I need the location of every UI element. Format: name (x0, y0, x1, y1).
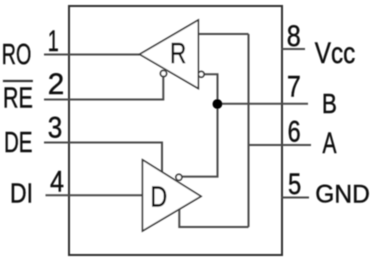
svg-text:B: B (322, 88, 337, 119)
receiver inverting input bubble (198, 71, 204, 77)
svg-text:3: 3 (48, 112, 63, 145)
svg-text:8: 8 (287, 20, 301, 53)
IC package body U1 (69, 6, 282, 255)
svg-text:D: D (150, 182, 167, 214)
svg-text:R: R (170, 38, 186, 70)
wire A net vertical (248, 34, 250, 227)
wire pin4 DI stub to driver input (46, 194, 143, 196)
svg-text:A: A (323, 127, 337, 160)
svg-text:Vcc: Vcc (315, 37, 356, 70)
svg-text:2: 2 (48, 68, 65, 101)
wire pin1 RO stub to receiver output (44, 54, 140, 56)
wire receiver upper input from A net (198, 33, 248, 35)
svg-text:4: 4 (50, 165, 64, 198)
wire pin6 A stub (249, 144, 312, 146)
svg-text:RO: RO (2, 39, 32, 71)
svg-text:GND: GND (315, 181, 370, 209)
receiver enable bubble (160, 70, 166, 76)
label RE with overline (3, 80, 33, 82)
svg-text:RE: RE (3, 82, 33, 114)
wire driver noninverting output to A net (179, 210, 248, 228)
receiver R triangle (140, 20, 199, 89)
wire pin8 Vcc stub (282, 48, 306, 50)
wire pin2 RE stub to enable riser (44, 77, 163, 100)
svg-text:1: 1 (48, 25, 59, 58)
wire pin7 B line (218, 103, 309, 105)
wire pin3 DE stub to driver enable (44, 143, 162, 173)
svg-text:7: 7 (287, 70, 301, 103)
wire pin5 GND stub (282, 197, 310, 199)
svg-text:DE: DE (4, 127, 33, 159)
wire B node to driver inverting output (182, 104, 218, 177)
junction dot node B (213, 99, 223, 109)
svg-text:5: 5 (288, 168, 301, 201)
wire receiver inverting input to B node (204, 74, 218, 104)
svg-text:6: 6 (288, 115, 301, 148)
svg-text:DI: DI (10, 178, 33, 209)
driver D triangle (143, 160, 202, 231)
driver inverting output bubble (176, 174, 182, 180)
